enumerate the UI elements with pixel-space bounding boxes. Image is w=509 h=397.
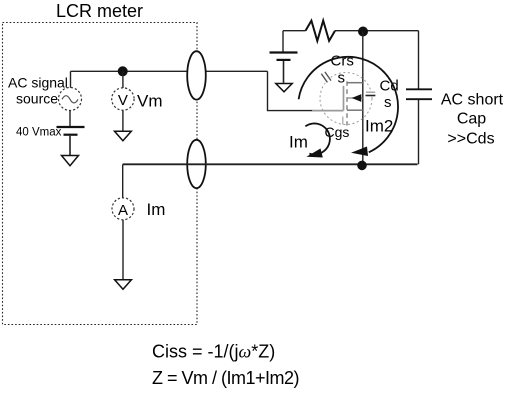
svg-text:Im: Im <box>289 133 308 152</box>
dashed body circle <box>320 73 372 125</box>
wire: AC source to battery <box>69 110 71 126</box>
Im loop arc (gate loop) <box>305 123 329 154</box>
svg-text:A: A <box>118 202 128 219</box>
ammeter A (dashed circle) <box>112 198 134 220</box>
wire: drain-source vertical <box>362 32 364 165</box>
svg-text:>>Cds: >>Cds <box>447 131 494 148</box>
svg-text:s: s <box>338 69 346 86</box>
svg-text:s: s <box>384 94 392 111</box>
Im2 loop arc (around MOSFET) <box>299 57 398 152</box>
ground arrow (bias network) <box>276 84 292 92</box>
current transformer ellipse (bottom, on LCR box edge) <box>187 140 206 188</box>
AC short capacitor <box>406 88 432 90</box>
LCR meter enclosure (dotted box) <box>3 23 198 325</box>
svg-text:Crs: Crs <box>331 53 354 70</box>
wire: ammeter to ground <box>122 220 124 280</box>
wire: V meter to ground <box>122 110 124 131</box>
svg-text:Im: Im <box>147 200 166 219</box>
Crs capacitor plates (on circle, upper-left) <box>323 76 330 81</box>
wire: drop to ammeter <box>122 164 124 198</box>
gate plate <box>343 86 345 111</box>
gate lead (grey part) <box>312 110 344 112</box>
svg-text:AC short: AC short <box>441 92 504 109</box>
Im arrowhead <box>306 149 322 158</box>
wire: gate drop and lead <box>268 71 314 110</box>
wire: battery to ground <box>69 136 71 156</box>
ground arrow under voltmeter <box>115 131 132 140</box>
svg-text:source: source <box>16 91 58 107</box>
svg-text:Vm: Vm <box>137 92 163 111</box>
source lead <box>347 109 363 111</box>
Cgs plate (gate extension below) <box>342 117 344 125</box>
Cd capacitor plates (on circle, right) <box>365 91 376 97</box>
wire: down to DC block cap <box>282 31 284 52</box>
wire: AC source top lead <box>70 71 72 88</box>
DC block capacitor (battery-style) <box>270 51 298 53</box>
battery 40 Vmax <box>57 126 85 128</box>
voltmeter V (dashed circle) <box>112 88 134 110</box>
svg-text:40 Vmax: 40 Vmax <box>16 127 62 139</box>
svg-text:Cap: Cap <box>457 111 486 128</box>
svg-text:Im2: Im2 <box>365 117 393 136</box>
drain lead <box>347 82 363 84</box>
node: top wire / V meter junction <box>118 66 128 76</box>
body arrow <box>347 97 363 99</box>
ground arrow under battery <box>62 156 79 166</box>
wire: cap to ground <box>283 61 285 83</box>
wire: top horizontal (source to gate corner) <box>71 70 268 72</box>
channel (dashed bar) <box>346 81 348 125</box>
wire: right branch down to AC short cap <box>418 31 420 89</box>
ground arrow under ammeter <box>115 280 132 289</box>
wire: bottom horizontal (A meter to right circuit) <box>123 163 418 165</box>
svg-text:AC signal: AC signal <box>8 75 68 91</box>
current transformer ellipse (top, on LCR box edge) <box>187 51 206 99</box>
svg-text:Z = Vm / (Im1+Im2): Z = Vm / (Im1+Im2) <box>152 368 300 388</box>
Im2 arrowhead <box>351 147 368 157</box>
svg-text:LCR meter: LCR meter <box>56 1 143 21</box>
AC signal source (dashed circle with sine) <box>59 88 82 111</box>
wire: top of bias network <box>283 30 306 32</box>
svg-text:V: V <box>118 92 128 109</box>
wire: node to V meter <box>122 71 124 88</box>
resistor R (gate bias) <box>306 21 336 41</box>
svg-text:Ciss = -1/(jω*Z): Ciss = -1/(jω*Z) <box>152 342 275 362</box>
node: resistor / drain junction <box>358 27 368 37</box>
node: source / bottom wire junction <box>357 161 367 171</box>
